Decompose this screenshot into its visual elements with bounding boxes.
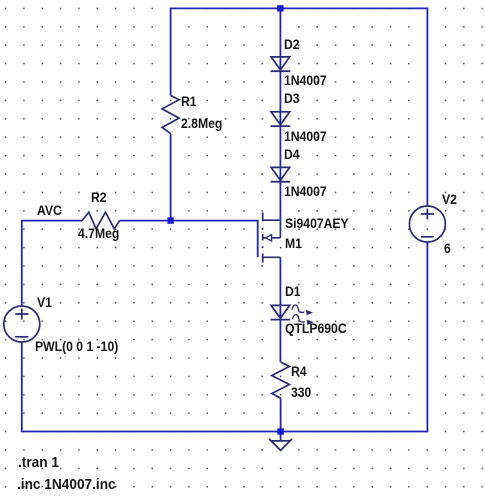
value Si9407AEY of M1 — [285, 217, 349, 230]
diode D2 1N4007 — [271, 57, 290, 70]
voltage source V2 minus sign — [421, 236, 434, 238]
transistor M1 drain line — [263, 256, 281, 258]
wire top rail with R1 column top and V2 column top — [171, 8, 428, 206]
voltage source V1 minus sign — [15, 336, 28, 338]
LED D1 light arrows — [292, 305, 305, 322]
diode D3 1N4007 — [271, 112, 290, 125]
wire R4 to bottom rail and ground stub — [280, 398, 282, 441]
value QTLP690C of D1 — [285, 322, 347, 335]
value PWL of V1 — [35, 340, 118, 353]
wire R1 bottom to AVC junction — [170, 134, 172, 221]
voltage source V2 plus sign — [421, 209, 434, 220]
spice directive .inc 1N4007.inc — [17, 477, 116, 492]
voltage source V2 circle — [409, 206, 445, 242]
wire AVC net: R2 to M1 gate — [120, 220, 258, 222]
voltage source V1 plus sign — [15, 309, 28, 320]
transistor M1 bulk line — [263, 237, 281, 239]
LED D1 QTLP690C body — [271, 305, 290, 318]
label R2 — [91, 191, 107, 204]
junction node AVC at R1 / R2 — [167, 217, 173, 223]
label D4 — [284, 148, 300, 161]
label V1 — [37, 296, 52, 309]
junction node at bottom rail / ground — [277, 428, 283, 434]
transistor M1 bulk bar to source — [279, 220, 281, 238]
value 1N4007 of D3 — [284, 130, 327, 143]
transistor M1 source line — [263, 219, 281, 221]
label D1 — [285, 285, 301, 298]
value 2.8Meg — [181, 117, 222, 130]
label D2 — [284, 38, 300, 51]
diode D4 1N4007 — [271, 167, 290, 180]
wire center column: top junction through D2 D3 D4 to M1 source — [279, 8, 281, 220]
wire bottom rail with V1 and V2 columns — [22, 242, 428, 432]
transistor M1 Si9407AEY gate bar — [257, 220, 259, 257]
value 1N4007 of D4 — [284, 185, 327, 198]
label D3 — [284, 92, 300, 105]
value 330 of R4 — [291, 386, 311, 399]
junction node at top rail / diode column — [277, 5, 283, 11]
label R4 — [291, 365, 307, 378]
value 6 of V2 — [444, 242, 451, 255]
resistor R1 body — [162, 96, 179, 134]
value 1N4007 of D2 — [284, 74, 327, 87]
voltage source V1 circle — [4, 306, 40, 342]
value 4.7Meg — [78, 227, 119, 240]
wire M1 drain through D1 to R4 — [279, 257, 281, 362]
label V2 — [442, 193, 457, 206]
resistor R4 body — [272, 362, 290, 398]
resistor R2 body — [82, 212, 120, 229]
net label AVC — [37, 204, 62, 217]
transistor M1 channel segments — [262, 212, 264, 262]
label M1 — [285, 237, 302, 250]
ground symbol — [269, 439, 292, 441]
spice directive .tran 1 — [18, 455, 59, 470]
wire AVC net: left column up from V1 and across to R2 — [22, 221, 82, 306]
label R1 — [181, 95, 197, 108]
transistor M1 bulk arrowhead — [266, 235, 272, 241]
